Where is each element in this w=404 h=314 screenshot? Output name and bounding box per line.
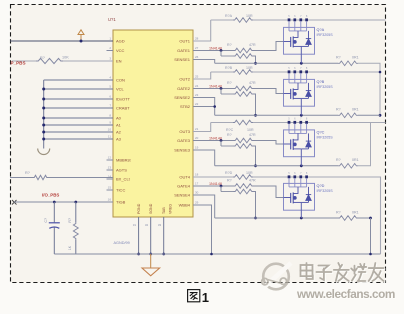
wire OUT1 riser	[193, 20, 211, 41]
svg-text:21: 21	[195, 127, 199, 131]
wire pulldown to sense line	[254, 192, 257, 220]
U1 right pin GATE2 (pin 24) stub	[193, 84, 200, 89]
watermark logo circle	[262, 263, 291, 289]
U1 left pin BX_CLt (pin 14) stub	[107, 174, 114, 179]
svg-text:24: 24	[195, 84, 199, 88]
transistor Q1 MOSFET symbol	[284, 31, 302, 48]
resistor R33 gate pulldown	[221, 141, 254, 149]
svg-text:I/O_PBS: I/O_PBS	[42, 193, 59, 198]
U1 right pin OUT2 (pin 25) stub	[193, 74, 200, 79]
wire gate resistor to transistor gate	[254, 186, 284, 198]
resistor R23 gate pulldown	[221, 89, 254, 97]
transistor Q3 drain pins	[288, 116, 308, 133]
U1 left pin A0 (pin 8) stub	[107, 113, 114, 118]
svg-text:IRF3205S: IRF3205S	[317, 33, 334, 37]
svg-text:17: 17	[195, 181, 199, 185]
wire from left edge to resistor R2	[10, 177, 33, 179]
svg-text:A3: A3	[116, 137, 122, 142]
wire transistor Q2 source to sense line	[300, 98, 302, 115]
U1 right pin SENSE4 (pin 30) stub	[193, 190, 200, 195]
transistor Q2 package outline	[284, 79, 315, 106]
svg-text:PGND: PGND	[137, 203, 141, 214]
svg-text:Q?B: Q?B	[317, 80, 325, 84]
resistor R44 current sense	[336, 210, 359, 220]
svg-text:GATE3: GATE3	[177, 138, 191, 143]
svg-text:TICC: TICC	[116, 188, 125, 193]
U1 right pin OUT1 (pin 28) stub	[193, 36, 200, 41]
U1 right pin GATE3 (pin 20) stub	[193, 136, 200, 141]
junction phase node A	[379, 114, 382, 117]
svg-text:10R: 10R	[246, 66, 253, 70]
resistor R13 gate pulldown	[221, 51, 254, 59]
wire SENSE2 from pin down	[193, 98, 215, 116]
U1 right pin SENSE1 (pin 26) stub	[193, 55, 200, 60]
U1 left pin AGTS (pin 13) stub	[107, 165, 114, 170]
U1 left pin VCC (pin 2) stub	[107, 46, 114, 51]
transistor Q3 package outline	[284, 130, 315, 157]
svg-text:IDxOTT: IDxOTT	[116, 97, 131, 102]
ground bus vertical wire left of U1	[43, 80, 45, 149]
transistor Q3 body diode	[301, 133, 311, 149]
resistor R43 gate pulldown	[221, 186, 254, 194]
wire OUT4 drive line left segment	[193, 176, 233, 178]
U1 bottom pin PGND (pin 31) wire to ground rail	[133, 217, 140, 255]
svg-text:0R1: 0R1	[352, 158, 359, 162]
svg-text:STB2: STB2	[180, 104, 191, 109]
svg-text:32: 32	[145, 223, 149, 227]
wire GATE3 from pin	[200, 140, 234, 142]
svg-text:R?: R?	[68, 218, 72, 223]
caption 图1	[188, 290, 200, 302]
svg-text:0R1: 0R1	[352, 56, 359, 60]
resistor R32 gate	[227, 133, 256, 143]
node VDD supply wire to pin AGD	[10, 40, 113, 42]
wire GATE4 from pin	[200, 185, 234, 187]
svg-text:IRF3205S: IRF3205S	[317, 189, 334, 193]
svg-text:10K: 10K	[62, 56, 69, 60]
junction on VDD wire	[80, 40, 83, 43]
svg-text:GATE1: GATE1	[177, 48, 191, 53]
wire OUT3 drive line left segment	[211, 122, 233, 124]
transistor Q4 body diode	[301, 187, 311, 203]
svg-text:10R: 10R	[246, 14, 253, 18]
svg-text:47R: 47R	[249, 81, 256, 85]
wire R2 to pin BX_CLt	[48, 177, 113, 179]
resistor R34 current sense	[336, 158, 359, 168]
wire SENSE3 from pin down	[193, 150, 215, 166]
svg-text:SENSE3: SENSE3	[174, 148, 191, 153]
svg-text:A0: A0	[116, 116, 122, 121]
wire GATE1 from pin	[200, 50, 234, 52]
svg-text:25: 25	[195, 74, 199, 78]
U1 left pin TIGB (pin 16) stub	[107, 197, 114, 202]
U1 left pin A1 (pin 9) stub	[107, 120, 114, 125]
svg-text:27: 27	[195, 46, 199, 50]
op-amp U1 quad MOSFET driver IC body	[113, 30, 193, 217]
transistor Q4 drain pins	[288, 171, 308, 187]
U1 right pin GATE4 (pin 17) stub	[193, 181, 200, 186]
ground symbol triangle under U1	[142, 254, 160, 276]
svg-text:12: 12	[108, 155, 112, 159]
wire SENSE1 from pin down	[193, 60, 215, 64]
resistor R3	[68, 202, 78, 254]
wire ground bus to U1 pin at y=89	[42, 88, 113, 91]
wire ground bus to U1 pin at y=118	[42, 117, 113, 120]
svg-text:1: 1	[202, 290, 209, 305]
svg-text:R?: R?	[227, 133, 232, 137]
U1 left pin MBBRst (pin 12) stub	[107, 155, 114, 160]
wire OUT3 riser	[193, 123, 211, 132]
wire OUT2 drive line to phase node column	[253, 71, 381, 74]
svg-text:MBBRst: MBBRst	[116, 158, 132, 163]
wire OUT2 riser	[193, 72, 211, 79]
wire transistor Q4 source to sense line	[300, 202, 302, 218]
svg-text:R?: R?	[40, 56, 45, 60]
svg-text:GATE4: GATE4	[177, 184, 191, 189]
svg-text:33: 33	[158, 223, 162, 227]
transistor Q4 MOSFET symbol	[284, 187, 302, 204]
wire sense2 end segment	[358, 114, 380, 116]
ground rail wire at bottom of U1	[54, 253, 380, 255]
svg-text:OUT3: OUT3	[179, 129, 190, 134]
wire gate resistor to transistor gate	[254, 89, 284, 94]
wire sense3 loop up to drive line	[358, 123, 371, 166]
transistor Q2 drain pins	[288, 66, 308, 83]
svg-text:EN: EN	[116, 59, 122, 64]
svg-text:47R: 47R	[249, 179, 256, 183]
U1 right pin SENSE2 (pin 23) stub	[193, 93, 200, 98]
U1 bottom pin SGND (pin 32) wire to ground rail	[145, 217, 152, 255]
svg-text:A1: A1	[116, 123, 122, 128]
wire transistor Q1 source to sense line	[300, 46, 302, 63]
svg-text:47R: 47R	[249, 43, 256, 47]
svg-text:28: 28	[195, 36, 199, 40]
svg-text:10R: 10R	[246, 171, 253, 175]
svg-text:22: 22	[195, 102, 199, 106]
wire ground bus to U1 pin at y=108	[42, 107, 113, 110]
resistor R42 gate	[227, 179, 256, 189]
transistor Q4 package outline	[284, 183, 315, 210]
svg-text:SENSE2: SENSE2	[174, 95, 191, 100]
svg-text:BX_CLt: BX_CLt	[116, 177, 131, 182]
transistor Q1 body diode	[301, 31, 311, 47]
wire pulldown to sense line	[254, 56, 257, 65]
U1 left pin AGD (pin 1) stub	[107, 36, 114, 41]
U1 left pin EN (pin 3) stub	[107, 56, 114, 61]
wire P_PBS to resistor R1	[12, 60, 36, 62]
svg-text:23: 23	[195, 93, 199, 97]
svg-text:11: 11	[108, 134, 111, 138]
svg-text:IRF3205S: IRF3205S	[317, 85, 334, 89]
wire R1 to pin EN	[63, 60, 113, 62]
U1 left pin VCL (pin 5) stub	[107, 84, 114, 89]
wire GATE2 from pin	[200, 88, 234, 90]
power flag VDD	[78, 30, 84, 41]
svg-text:VCC: VCC	[116, 48, 125, 53]
svg-text:AGTS: AGTS	[116, 168, 127, 173]
wire ground bus to U1 pin at y=132	[42, 131, 113, 134]
wire OUT4 drive line and drop to ground rail	[253, 177, 381, 254]
svg-text:OUT1: OUT1	[179, 39, 190, 44]
resistor R22 gate	[227, 81, 256, 91]
svg-text:R?: R?	[336, 56, 341, 60]
svg-text:1K: 1K	[68, 245, 72, 250]
wire gate resistor to transistor gate	[254, 141, 284, 145]
svg-text:SGND: SGND	[149, 203, 153, 214]
svg-text:16: 16	[108, 197, 112, 201]
svg-text:GATE2: GATE2	[177, 86, 191, 91]
U1 left pin TICC (pin 15) stub	[107, 185, 114, 190]
svg-text:31: 31	[133, 223, 137, 227]
svg-text:TAB: TAB	[162, 207, 166, 214]
svg-text:CON: CON	[116, 78, 125, 83]
junction at gate resistor split	[220, 139, 223, 142]
wire STB2 pin join to sense drop	[193, 105, 216, 108]
svg-text:0R1: 0R1	[352, 108, 359, 112]
svg-text:C?: C?	[44, 218, 48, 223]
resistor R2	[25, 171, 48, 180]
svg-text:OUT4: OUT4	[179, 175, 190, 180]
svg-text:10: 10	[108, 127, 112, 131]
resistor R1	[36, 56, 69, 64]
svg-text:29: 29	[195, 200, 199, 204]
svg-text:R?A: R?A	[225, 14, 233, 18]
svg-text:R?: R?	[227, 43, 232, 47]
resistor R14 current sense	[336, 56, 359, 66]
ground symbol (earth arc) on bus	[38, 149, 50, 155]
junction at resistor R3 tap	[74, 201, 77, 204]
wire ground bus to U1 pin at y=125	[42, 124, 113, 127]
resistor R24 current sense	[336, 108, 359, 118]
wire transistor Q3 source to sense line	[300, 149, 302, 166]
resistor R41 drive	[233, 175, 253, 180]
watermark text 电子发烧友	[301, 264, 384, 282]
svg-text:SENSE1: SENSE1	[174, 57, 191, 62]
svg-text:R?B: R?B	[225, 66, 233, 70]
wire OUT1 drive line to sheet edge	[253, 19, 386, 21]
svg-text:Q?A: Q?A	[317, 28, 325, 32]
svg-text:15: 15	[108, 185, 112, 189]
resistor R12 gate	[227, 43, 256, 53]
svg-text:SENSE4: SENSE4	[174, 193, 191, 198]
junction at capacitor C1 tap	[53, 201, 56, 204]
wire I/O_PBS to pin TIGB	[14, 201, 113, 203]
U1 left pin CRABT (pin 7) stub	[107, 103, 114, 108]
svg-text:AGND/99: AGND/99	[114, 241, 130, 245]
wire sense1 to phase node column	[358, 63, 380, 115]
U1 right pin OUT3 (pin 21) stub	[193, 127, 200, 132]
svg-text:R?D: R?D	[225, 171, 233, 175]
svg-text:26: 26	[195, 55, 199, 59]
svg-text:R?: R?	[227, 81, 232, 85]
svg-text:A2: A2	[116, 130, 122, 135]
svg-text:R?: R?	[336, 108, 341, 112]
svg-text:13: 13	[108, 165, 112, 169]
svg-text:0R1: 0R1	[352, 210, 359, 214]
svg-text:30: 30	[195, 190, 199, 194]
U1 right pin STB2 (pin 22) stub	[193, 102, 200, 107]
wire sense line under transistor Q2	[215, 114, 338, 117]
wire sense4 to ground rail	[358, 217, 372, 256]
svg-text:VCL: VCL	[116, 87, 125, 92]
svg-text:R?: R?	[336, 158, 341, 162]
resistor R21 drive	[233, 70, 253, 75]
wire SENSE4 from pin down	[193, 195, 215, 218]
svg-text:WBB4: WBB4	[179, 203, 191, 208]
capacitor C1	[44, 202, 60, 254]
U1 bottom pin TAB (pin 33) wire to ground rail	[158, 217, 165, 255]
svg-text:VREG: VREG	[169, 204, 173, 214]
U1 left pin A2 (pin 10) stub	[107, 127, 114, 132]
U1 right pin SENSE3 (pin 19) stub	[193, 145, 200, 150]
svg-text:R?: R?	[25, 171, 30, 175]
svg-text:10R: 10R	[247, 128, 254, 132]
transistor Q1 package outline	[284, 27, 315, 54]
svg-text:Q?D: Q?D	[317, 184, 325, 188]
transistor Q1 drain pins	[288, 14, 308, 31]
wire ground bus to U1 pin at y=99	[42, 98, 113, 101]
svg-text:TIGB: TIGB	[116, 200, 126, 205]
svg-text:U?1: U?1	[108, 17, 116, 22]
wire bus corner to pin CON	[44, 79, 113, 81]
svg-text:R?: R?	[336, 210, 341, 214]
svg-text:IRF3205S: IRF3205S	[317, 136, 334, 140]
junction at gate resistor split	[220, 185, 223, 188]
U1 left pin CON (pin 4) stub	[107, 75, 114, 80]
U1 right pin OUT4 (pin 18) stub	[193, 172, 200, 177]
resistor R11 drive	[233, 18, 253, 23]
wire OUT1 drive line left segment	[211, 19, 233, 21]
U1 left pin IDxOTT (pin 6) stub	[107, 94, 114, 99]
transistor Q3 MOSFET symbol	[284, 133, 302, 150]
wire OUT3 drive line to sheet edge	[253, 122, 386, 124]
wire sense line under transistor Q1	[215, 62, 338, 65]
U1 right pin WBB4 (pin 29) stub	[193, 200, 200, 205]
U1 right pin GATE1 (pin 27) stub	[193, 46, 200, 51]
junction at gate resistor split	[220, 49, 223, 52]
no-connect marker on I/O wire	[12, 200, 17, 205]
wire gate resistor to transistor gate	[254, 42, 284, 51]
wire sense line under transistor Q3	[215, 164, 338, 167]
wire pulldown to sense line	[254, 94, 257, 117]
svg-text:OUT2: OUT2	[179, 77, 190, 82]
wire OUT2 drive line left segment	[211, 71, 233, 73]
wire sense line under transistor Q4	[215, 217, 338, 220]
transistor Q2 MOSFET symbol	[284, 83, 302, 100]
svg-text:AGD: AGD	[116, 39, 125, 44]
wire ground bus to U1 pin at y=139	[42, 138, 113, 141]
svg-text:CRABT: CRABT	[116, 106, 130, 111]
svg-text:R?: R?	[227, 179, 232, 183]
svg-text:R?C: R?C	[226, 128, 234, 132]
svg-text:47R: 47R	[249, 133, 256, 137]
wire pulldown to sense line	[254, 146, 257, 167]
U1 left pin A3 (pin 11) stub	[107, 134, 114, 139]
svg-text:www.elecfans.com: www.elecfans.com	[296, 287, 395, 301]
svg-text:Q?C: Q?C	[317, 131, 325, 135]
svg-text:18: 18	[195, 172, 199, 176]
transistor Q2 body diode	[301, 83, 311, 99]
resistor R31 drive	[233, 120, 253, 125]
junction at gate resistor split	[220, 87, 223, 90]
svg-text:20: 20	[195, 136, 199, 140]
svg-text:19: 19	[195, 145, 199, 149]
wire WBB4 pin drop to ground rail	[193, 205, 213, 255]
